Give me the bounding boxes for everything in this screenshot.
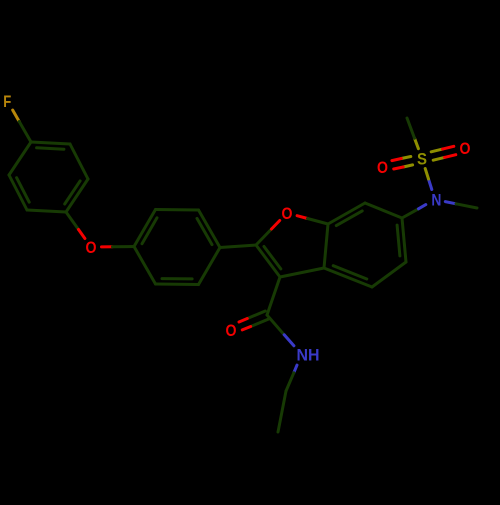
ring B double C5=C6 — [162, 277, 192, 280]
ring A double C3=C4 — [65, 181, 80, 204]
ring A edge C3-C4 — [66, 179, 88, 212]
bond C-N amide — [267, 315, 284, 335]
furan edge C2-C3 — [256, 245, 280, 277]
bond ring D - N — [402, 209, 419, 218]
svg-text:O: O — [377, 158, 388, 177]
ring D edge C4-C3a — [324, 268, 372, 287]
bond ring A - O ether — [66, 212, 79, 230]
ring D double C4=C3a — [333, 266, 367, 279]
ring D edge C5-C4 — [372, 262, 406, 287]
svg-text:NH: NH — [297, 346, 320, 365]
ring B edge C2-C3 — [156, 208, 199, 212]
ring A double C1=C2 — [37, 148, 64, 149]
ring B edge C1-C2 — [134, 210, 156, 247]
ring B edge C5-C6 — [156, 283, 199, 287]
ring B edge C4-C5 — [199, 248, 221, 285]
svg-text:O: O — [86, 238, 97, 257]
bond N-CH2 — [294, 365, 297, 373]
bond CH2-CH3 — [278, 391, 286, 432]
furan edge C2-O1 — [256, 229, 272, 245]
fused edge C3a-C7a — [324, 224, 328, 268]
bond S-methyl — [415, 138, 419, 149]
svg-text:S: S — [417, 150, 427, 169]
ring D double C7a=C7 — [336, 211, 362, 226]
bond ring B - furan C2 — [220, 245, 256, 248]
ring D edge C7-C6 — [365, 203, 402, 218]
furan edge C3-C3a — [280, 268, 324, 277]
svg-text:O: O — [226, 321, 237, 340]
svg-text:O: O — [282, 204, 293, 223]
S=O left double — [401, 157, 411, 159]
bond N-methyl — [445, 202, 456, 204]
ring A edge C1-C2 — [31, 142, 70, 144]
bond O ether - ring B — [102, 245, 113, 248]
bond F-C ring A — [13, 110, 20, 121]
ring A edge C2-C3 — [70, 144, 88, 179]
ring B edge C3-C4 — [199, 210, 221, 248]
ring D double C6=C5 — [397, 225, 400, 256]
S=O right double — [433, 157, 444, 160]
ring A double C5=C6 — [17, 178, 30, 203]
furan edge O1-C7a — [297, 216, 307, 219]
bond C3-carbonyl — [267, 277, 280, 315]
ring B edge C6-C1 — [134, 247, 156, 285]
C=O double — [247, 311, 265, 319]
svg-text:N: N — [431, 191, 441, 210]
ring A edge C5-C6 — [9, 175, 27, 210]
ring B double C3=C4 — [197, 218, 212, 244]
ring D edge C7a-C7 — [328, 203, 365, 224]
ring B double C1=C2 — [142, 218, 157, 244]
ring A edge C4-C5 — [27, 210, 66, 212]
furan double C2=C3 — [264, 247, 281, 269]
bond N-S — [429, 179, 432, 190]
ring D edge C6-C5 — [402, 218, 406, 262]
svg-text:O: O — [460, 139, 471, 158]
ring A edge C6-C1 — [9, 142, 31, 175]
svg-text:F: F — [3, 92, 11, 111]
